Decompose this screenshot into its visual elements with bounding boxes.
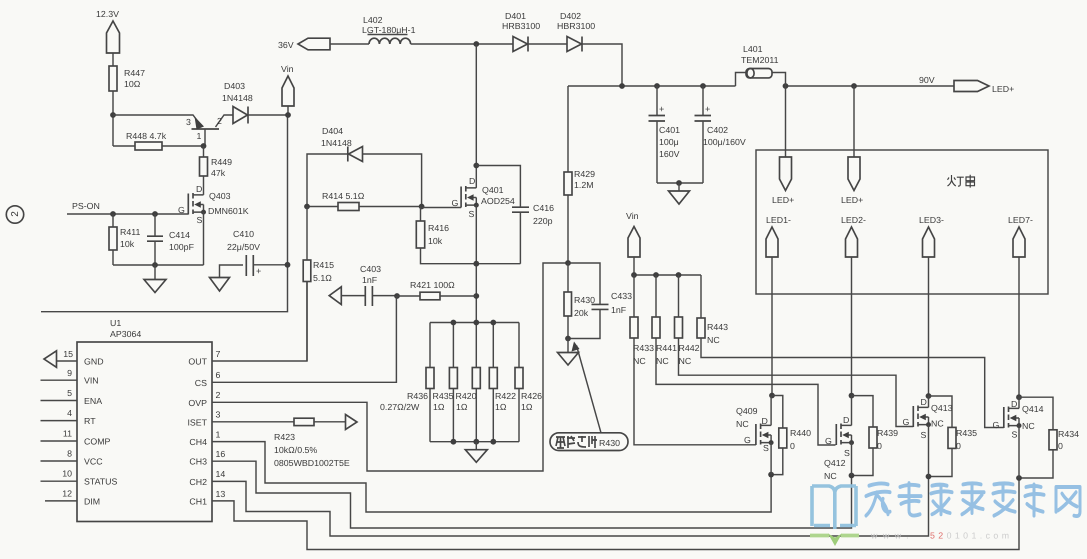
net PS-ON — [67, 201, 188, 214]
wire — [113, 115, 202, 127]
svg-text:1Ω: 1Ω — [495, 402, 507, 412]
svg-text:NC: NC — [824, 471, 837, 481]
svg-text:TEM2011: TEM2011 — [741, 55, 779, 65]
svg-text:AP3064: AP3064 — [110, 329, 141, 339]
svg-text:160V: 160V — [659, 149, 680, 159]
svg-text:NC: NC — [931, 419, 944, 429]
svg-text:AOD254: AOD254 — [481, 196, 515, 206]
svg-text:DIM: DIM — [84, 496, 100, 506]
symbol circled 2 — [6, 206, 23, 223]
resistor R443 NC — [697, 275, 1004, 428]
svg-text:10k: 10k — [428, 236, 443, 246]
svg-text:D: D — [469, 176, 475, 186]
svg-text:2: 2 — [216, 390, 221, 400]
wire — [928, 425, 930, 477]
svg-text:NC: NC — [656, 356, 669, 366]
svg-text:R423: R423 — [274, 432, 295, 442]
node Vin — [281, 64, 294, 106]
svg-text:12.3V: 12.3V — [96, 9, 119, 19]
capacitor C403 1nF — [341, 264, 397, 306]
svg-text:R434: R434 — [1058, 429, 1079, 439]
svg-text:C402: C402 — [707, 125, 728, 135]
resistor R415 5.1 — [303, 207, 334, 362]
svg-text:6: 6 — [216, 370, 221, 380]
svg-text:DMN601K: DMN601K — [208, 206, 249, 216]
svg-text:D403: D403 — [224, 81, 245, 91]
node junction — [110, 112, 116, 118]
wire — [330, 43, 369, 45]
svg-text:0.27Ω/2W: 0.27Ω/2W — [380, 402, 420, 412]
svg-text:100μ: 100μ — [659, 137, 679, 147]
svg-text:R443: R443 — [707, 322, 728, 332]
svg-text:D: D — [1011, 399, 1017, 409]
svg-text:10k: 10k — [120, 239, 135, 249]
svg-text:Vin: Vin — [281, 64, 294, 74]
svg-text:R415: R415 — [313, 260, 334, 270]
transistor Q403 DMN601K — [178, 184, 249, 225]
inductor L402 LGT-180uH-1 — [362, 15, 416, 44]
svg-text:11: 11 — [63, 429, 72, 439]
svg-text:1.2M: 1.2M — [574, 180, 594, 190]
svg-text:5: 5 — [67, 388, 72, 398]
resistor R441 NC — [652, 275, 836, 445]
svg-text:LGT-180μH-1: LGT-180μH-1 — [362, 25, 416, 35]
wire — [851, 443, 853, 476]
svg-text:520101.com: 520101.com — [930, 531, 1012, 541]
LED string box (lamp string) — [756, 150, 1048, 294]
svg-text:R426: R426 — [521, 391, 542, 401]
svg-text:CH4: CH4 — [189, 437, 207, 447]
svg-text:10kΩ/0.5%: 10kΩ/0.5% — [274, 445, 317, 455]
net LED3- — [919, 215, 944, 396]
svg-text:+: + — [659, 104, 664, 114]
svg-text:4: 4 — [67, 408, 72, 418]
wire Q401 drain to rail — [475, 44, 477, 188]
resistor R435 0 — [929, 396, 978, 477]
node Q409 source junction — [768, 472, 774, 478]
svg-text:D404: D404 — [322, 126, 343, 136]
node 12.3V — [96, 9, 120, 53]
svg-text:1: 1 — [197, 131, 202, 141]
svg-text:100μ/160V: 100μ/160V — [703, 137, 746, 147]
svg-text:G: G — [903, 417, 910, 427]
svg-text:R421 100Ω: R421 100Ω — [410, 280, 455, 290]
wire LED+ drop 1 — [785, 86, 787, 157]
sense resistor bank rails — [430, 323, 519, 442]
ground — [144, 265, 166, 293]
node divider junction — [565, 260, 571, 266]
diode D401 HRB3100 — [502, 11, 567, 52]
resistor R435 1 — [433, 368, 458, 413]
resistor R411 10k — [109, 214, 140, 265]
svg-text:47k: 47k — [211, 168, 226, 178]
pin 2 OVP — [188, 390, 220, 408]
svg-text:Q414: Q414 — [1022, 404, 1044, 414]
svg-text:D: D — [843, 415, 849, 425]
svg-text:R416: R416 — [428, 223, 449, 233]
node Q412 source junction — [849, 473, 855, 479]
diode D404 1N4148 — [307, 126, 422, 207]
wire — [770, 443, 772, 475]
resistor R423 10k/0.5% — [274, 418, 350, 468]
svg-text:5.1Ω: 5.1Ω — [313, 273, 332, 283]
wire — [112, 91, 114, 146]
svg-text:STATUS: STATUS — [84, 477, 118, 487]
pin 12 DIM — [45, 489, 100, 507]
svg-text:+: + — [256, 266, 261, 276]
callout degraded component R430 — [550, 342, 628, 451]
wire — [112, 53, 114, 66]
transistor Q401 AOD254 — [422, 176, 515, 219]
svg-text:ENA: ENA — [84, 396, 102, 406]
svg-text:1Ω: 1Ω — [521, 402, 533, 412]
transistor Q412 NC — [824, 396, 854, 481]
svg-text:S: S — [469, 209, 475, 219]
resistor R421 100 — [397, 280, 476, 300]
resistor R422 1 — [489, 368, 516, 413]
resistor R416 10k — [416, 207, 476, 264]
transistor Q409 NC — [736, 396, 774, 454]
svg-text:100pF: 100pF — [169, 242, 195, 252]
svg-text:2: 2 — [10, 211, 21, 217]
svg-text:0: 0 — [877, 441, 882, 451]
svg-text:NC: NC — [679, 356, 692, 366]
svg-text:Q413: Q413 — [931, 403, 953, 413]
capacitor C401 100u 160V — [649, 86, 681, 183]
pin 13 CH1 — [189, 478, 1019, 550]
svg-text:1: 1 — [216, 430, 221, 440]
node CS junction — [394, 293, 400, 299]
svg-text:C401: C401 — [659, 125, 680, 135]
svg-text:+: + — [705, 104, 710, 114]
svg-text:S: S — [921, 430, 927, 440]
svg-text:C403: C403 — [360, 264, 381, 274]
svg-text:LED+: LED+ — [992, 84, 1014, 94]
svg-text:CH2: CH2 — [189, 477, 207, 487]
resistor R447 — [109, 66, 145, 91]
svg-text:R449: R449 — [211, 157, 232, 167]
transistor Q414 — [993, 397, 1044, 439]
resistor R436 0.27/2W — [380, 368, 434, 413]
ground — [210, 265, 244, 291]
svg-text:13: 13 — [216, 489, 226, 499]
resistor R434 0 — [1019, 397, 1079, 478]
svg-text:Q401: Q401 — [482, 185, 504, 195]
wire — [411, 43, 513, 45]
svg-text:NC: NC — [1022, 421, 1035, 431]
IC U1 AP3064 — [77, 318, 212, 522]
svg-text:PS-ON: PS-ON — [72, 201, 100, 211]
node Vin (mid) — [626, 211, 640, 275]
svg-text:S: S — [1012, 430, 1018, 440]
svg-text:OVP: OVP — [188, 398, 207, 408]
svg-text:3: 3 — [216, 410, 221, 420]
wire 90V rail — [568, 85, 954, 87]
svg-text:Q412: Q412 — [824, 458, 846, 468]
svg-text:R422: R422 — [495, 391, 516, 401]
svg-text:R441: R441 — [656, 343, 677, 353]
svg-text:L401: L401 — [743, 44, 763, 54]
svg-text:R439: R439 — [877, 428, 898, 438]
svg-text:LED7-: LED7- — [1008, 215, 1033, 225]
svg-text:0805WBD1002T5E: 0805WBD1002T5E — [274, 458, 350, 468]
svg-text:15: 15 — [63, 349, 73, 359]
svg-text:G: G — [744, 435, 751, 445]
net LED1- — [766, 215, 791, 396]
svg-text:LED2-: LED2- — [841, 215, 866, 225]
svg-text:14: 14 — [216, 469, 226, 479]
svg-text:3: 3 — [186, 117, 191, 127]
capacitor C433 1nF — [568, 263, 632, 339]
svg-text:CH1: CH1 — [189, 496, 207, 506]
pin 8 VCC — [41, 449, 104, 467]
svg-text:1nF: 1nF — [362, 275, 378, 285]
svg-text:0: 0 — [956, 441, 961, 451]
net 90V LED+ — [919, 75, 1014, 94]
resistor R420 1 — [456, 368, 481, 413]
svg-text:7: 7 — [216, 349, 221, 359]
svg-text:VCC: VCC — [84, 457, 103, 467]
svg-text:NC: NC — [633, 356, 646, 366]
svg-text:D: D — [921, 397, 927, 407]
pin 6 CS — [195, 296, 397, 388]
pin 5 ENA — [41, 388, 103, 406]
resistor R433 NC — [630, 275, 756, 445]
svg-text:16: 16 — [216, 449, 226, 459]
svg-text:HBR3100: HBR3100 — [557, 21, 595, 31]
svg-text:www.: www. — [870, 531, 914, 541]
wire — [657, 182, 703, 184]
resistor R440 0 — [771, 396, 811, 475]
wire Q401 source node — [476, 205, 520, 322]
svg-text:G: G — [825, 436, 832, 446]
pin 10 STATUS — [41, 469, 118, 487]
ground R430 — [558, 339, 579, 366]
svg-text:9: 9 — [67, 368, 72, 378]
svg-text:C433: C433 — [611, 291, 632, 301]
watermark text jiadian weixiu ziliao wang — [866, 483, 1080, 516]
wire OVP loop — [212, 263, 568, 471]
svg-text:20k: 20k — [574, 308, 589, 318]
svg-text:0: 0 — [790, 441, 795, 451]
node junction base — [201, 143, 207, 149]
ground — [669, 183, 690, 204]
svg-text:R420: R420 — [456, 391, 477, 401]
svg-text:R433: R433 — [633, 343, 654, 353]
svg-text:R411: R411 — [120, 227, 140, 237]
inductor L401 TEM2011 — [736, 44, 786, 86]
net arrow gate-drive — [329, 287, 341, 305]
ground bank — [465, 442, 487, 463]
svg-text:R430: R430 — [599, 438, 620, 448]
svg-text:12: 12 — [62, 489, 72, 499]
svg-text:C410: C410 — [233, 229, 254, 239]
svg-text:C416: C416 — [533, 203, 554, 213]
node Q414 source junction — [1016, 475, 1022, 481]
wire NC resistor rail — [634, 274, 701, 276]
svg-text:10: 10 — [62, 469, 72, 479]
svg-text:0: 0 — [1058, 441, 1063, 451]
svg-text:1nF: 1nF — [611, 305, 627, 315]
svg-text:R429: R429 — [574, 169, 595, 179]
resistor R448 4.7k — [113, 131, 204, 150]
net LED2- — [841, 215, 866, 396]
node LED1- drain junction — [769, 393, 775, 399]
svg-text:36V: 36V — [278, 40, 294, 50]
transistor (pins 3,2,1) — [186, 115, 233, 146]
svg-text:CH3: CH3 — [189, 457, 207, 467]
wire Q403 source — [203, 212, 205, 265]
net LED7- — [1008, 215, 1033, 397]
resistor R430 20k — [564, 263, 595, 339]
svg-text:90V: 90V — [919, 75, 935, 85]
label lamp-string (Chinese) — [948, 175, 975, 188]
svg-text:Vin: Vin — [626, 211, 639, 221]
pin 11 COMP — [41, 429, 111, 447]
node Q413 source junction — [926, 474, 932, 480]
watermark book icon — [812, 486, 856, 529]
svg-text:10Ω: 10Ω — [124, 79, 141, 89]
svg-text:Q409: Q409 — [736, 406, 758, 416]
resistor R414 5.1 — [307, 191, 422, 211]
svg-text:Q403: Q403 — [209, 191, 231, 201]
wire Vin vertical — [41, 106, 288, 312]
svg-text:R430: R430 — [574, 295, 595, 305]
svg-text:GND: GND — [84, 357, 104, 367]
svg-text:CS: CS — [195, 378, 207, 388]
svg-text:1Ω: 1Ω — [433, 402, 445, 412]
node LED7- drain junction — [1016, 394, 1022, 400]
svg-text:COMP: COMP — [84, 437, 111, 447]
capacitor C414 100pF — [147, 214, 195, 265]
capacitor C410 22u/50V — [227, 229, 288, 276]
svg-text:R442: R442 — [679, 343, 700, 353]
node LED2- drain junction — [849, 393, 855, 399]
svg-text:R440: R440 — [790, 428, 811, 438]
net arrow ISET — [346, 415, 358, 430]
svg-text:D402: D402 — [560, 11, 581, 21]
svg-text:OUT: OUT — [188, 357, 207, 367]
svg-text:2: 2 — [217, 116, 222, 126]
svg-text:1N4148: 1N4148 — [222, 93, 253, 103]
svg-text:LED1-: LED1- — [766, 215, 791, 225]
pin 16 CH3 — [189, 449, 851, 528]
svg-text:R435: R435 — [956, 428, 977, 438]
pin 1 CH4 — [189, 430, 771, 513]
svg-text:D401: D401 — [505, 11, 526, 21]
svg-text:S: S — [197, 215, 203, 225]
svg-text:1Ω: 1Ω — [456, 402, 468, 412]
pin 7 OUT — [188, 282, 307, 367]
svg-text:L402: L402 — [363, 15, 383, 25]
resistor R449 47k — [200, 146, 233, 195]
svg-text:LED+: LED+ — [772, 195, 794, 205]
wire LED+ drop 2 — [853, 86, 855, 157]
net LED+ arrow2 — [841, 157, 863, 205]
svg-text:R448 4.7k: R448 4.7k — [126, 131, 167, 141]
wire bottom rail — [113, 264, 204, 266]
svg-text:RT: RT — [84, 416, 96, 426]
wire — [1018, 426, 1020, 478]
svg-text:D: D — [762, 416, 768, 426]
pin 15 GND with arrow — [44, 349, 104, 367]
svg-text:22μ/50V: 22μ/50V — [227, 242, 260, 252]
resistor R442 NC — [675, 275, 914, 427]
resistor R429 1.2M — [564, 86, 595, 263]
svg-text:D: D — [196, 184, 202, 194]
svg-text:C414: C414 — [169, 230, 190, 240]
svg-text:S: S — [844, 448, 850, 458]
diode D402 HBR3100 — [557, 11, 622, 86]
diode D403 1N4148 — [222, 81, 288, 124]
capacitor C416 220p — [476, 166, 554, 264]
resistor R426 1 — [515, 368, 542, 413]
pin 3 ISET — [187, 410, 345, 428]
svg-text:G: G — [452, 198, 459, 208]
svg-text:8: 8 — [67, 449, 72, 459]
svg-text:HRB3100: HRB3100 — [502, 21, 540, 31]
svg-text:ISET: ISET — [187, 417, 207, 427]
capacitor C402 100u/160V — [695, 86, 746, 183]
pin 4 RT — [41, 408, 97, 426]
transistor Q413 — [903, 396, 953, 440]
svg-text:R414 5.1Ω: R414 5.1Ω — [322, 191, 365, 201]
svg-text:220p: 220p — [533, 216, 553, 226]
svg-text:G: G — [993, 420, 1000, 430]
svg-text:LED3-: LED3- — [919, 215, 944, 225]
resistor R439 0 — [852, 396, 899, 476]
svg-text:U1: U1 — [110, 318, 121, 328]
pin 14 CH2 — [189, 469, 928, 536]
svg-text:NC: NC — [736, 419, 749, 429]
svg-text:S: S — [763, 443, 769, 453]
svg-text:R435: R435 — [433, 391, 454, 401]
net LED+ arrow1 — [772, 157, 794, 205]
pin 9 VIN — [41, 368, 99, 386]
svg-text:LED+: LED+ — [841, 195, 863, 205]
net 36V — [278, 38, 330, 50]
svg-text:R436: R436 — [407, 391, 428, 401]
svg-text:R447: R447 — [124, 68, 145, 78]
svg-text:NC: NC — [707, 335, 720, 345]
node LED3- drain junction — [926, 393, 932, 399]
svg-text:VIN: VIN — [84, 376, 99, 386]
